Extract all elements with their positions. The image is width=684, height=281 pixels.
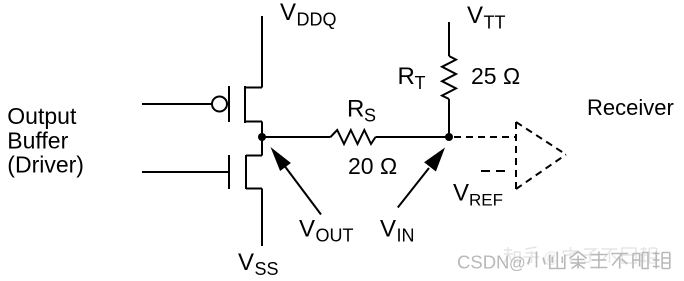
label VOUT xyxy=(299,216,354,246)
transistor Q1 (PMOS) xyxy=(212,86,262,123)
svg-text:IN: IN xyxy=(397,226,415,246)
wire: RS to node B xyxy=(376,136,450,138)
node A (VOUT node) xyxy=(258,133,266,141)
wire: VTT rail xyxy=(448,22,450,56)
svg-text:R: R xyxy=(347,96,364,123)
svg-text:V: V xyxy=(453,180,469,207)
label VSS xyxy=(238,249,279,279)
svg-text:CSDN: CSDN xyxy=(457,252,509,273)
label RT xyxy=(398,63,426,93)
resistor RT xyxy=(442,56,456,99)
svg-text:V: V xyxy=(380,216,396,243)
node B (VIN node) xyxy=(445,133,453,141)
wire: Q2 drain to node A xyxy=(261,137,263,156)
svg-text:V: V xyxy=(299,216,315,243)
svg-text:DDQ: DDQ xyxy=(297,10,337,30)
label Receiver xyxy=(587,95,674,120)
svg-text:Receiver: Receiver xyxy=(587,95,674,120)
watermark CSDN text xyxy=(457,252,670,273)
wire: Q1 drain to node A xyxy=(261,122,263,138)
label VREF xyxy=(453,180,503,210)
dashed wire: node B to receiver xyxy=(454,136,516,138)
svg-text:V: V xyxy=(467,2,483,29)
label VTT xyxy=(467,2,506,33)
wire: PMOS gate input xyxy=(142,103,212,105)
svg-text:Output: Output xyxy=(7,103,77,129)
svg-text:OUT: OUT xyxy=(316,226,354,246)
svg-text:20 Ω: 20 Ω xyxy=(348,153,397,179)
wire: node A to RS xyxy=(262,136,331,138)
receiver (dashed triangle) xyxy=(516,122,566,189)
watermark ghost text xyxy=(504,247,657,267)
svg-text:S: S xyxy=(364,106,376,126)
label VIN xyxy=(380,216,415,246)
wire: VDDQ rail xyxy=(261,16,263,88)
wire: Q2 source to VSS xyxy=(261,189,263,247)
svg-text:T: T xyxy=(415,73,426,93)
svg-text:Buffer: Buffer xyxy=(7,127,68,153)
label 20 ohm xyxy=(348,153,397,179)
dashed wire: VREF input xyxy=(481,170,506,172)
svg-text:R: R xyxy=(398,63,415,90)
svg-text:SS: SS xyxy=(255,259,279,279)
svg-text:V: V xyxy=(238,249,254,276)
svg-text:25 Ω: 25 Ω xyxy=(471,63,520,89)
svg-text:REF: REF xyxy=(469,191,503,210)
resistor RS xyxy=(331,130,376,144)
arrow: pointer to VIN node xyxy=(398,148,445,208)
wire: NMOS gate input xyxy=(142,171,229,173)
svg-text:(Driver): (Driver) xyxy=(7,152,84,178)
label 25 ohm xyxy=(471,63,520,89)
wire: RT to node B xyxy=(448,99,450,137)
svg-text:TT: TT xyxy=(484,13,506,33)
arrow: pointer to VOUT node xyxy=(271,147,322,215)
svg-text:@: @ xyxy=(509,255,526,273)
label RS xyxy=(347,96,376,126)
svg-text:V: V xyxy=(280,0,296,26)
label VDDQ xyxy=(280,0,337,30)
label: Output Buffer (Driver) xyxy=(7,103,84,178)
transistor Q2 (NMOS) xyxy=(229,155,262,189)
